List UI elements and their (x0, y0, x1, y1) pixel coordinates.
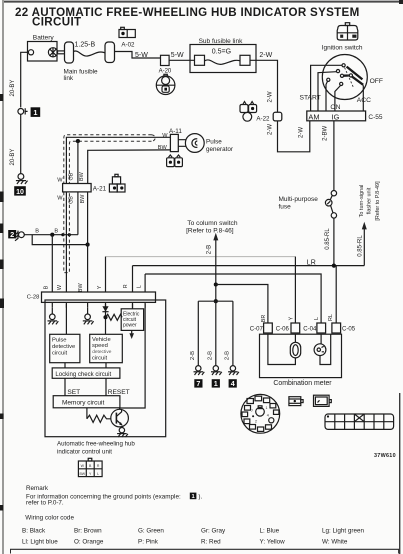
ground 1 drop (208, 301, 222, 388)
wires to locking check circuit (65, 363, 106, 368)
base resistor (87, 415, 111, 422)
ground 4 drop (225, 301, 239, 388)
C-28 pin stubs (52, 302, 145, 307)
svg-text:L: L (97, 472, 99, 476)
internal ground under B pin (48, 308, 59, 325)
svg-text:Gr: Gray: Gr: Gray (201, 527, 226, 534)
page bottom rule (10, 549, 399, 554)
wire BR branch to C-07 (216, 285, 268, 324)
svg-text:5-W: 5-W (135, 52, 148, 59)
ground 10 (16, 174, 28, 184)
junction 2-B / ground bar (214, 299, 218, 303)
svg-text:2: 2 (10, 230, 14, 239)
svg-text:0.85-RL: 0.85-RL (325, 228, 331, 250)
svg-text:G: Green: G: Green (138, 527, 164, 534)
ground bar for grounds 7 1 4 (198, 300, 233, 302)
svg-text:Wiring color code: Wiring color code (25, 515, 74, 522)
wire top contact to AM (311, 65, 343, 111)
wire L pin to transistor collector (120, 304, 146, 410)
power arrow below box (129, 330, 134, 339)
svg-text:BW: BW (78, 283, 84, 293)
connector A-22 pictogram (240, 102, 270, 123)
svg-text:Pulse: Pulse (52, 338, 67, 344)
svg-text:BR: BR (261, 315, 267, 323)
svg-text:flasher unit: flasher unit (367, 187, 373, 214)
svg-text:C-07: C-07 (250, 327, 264, 333)
svg-text:2-W: 2-W (299, 127, 305, 138)
svg-text:C-05: C-05 (342, 327, 356, 333)
svg-text:2-BW: 2-BW (322, 125, 328, 140)
svg-text:B: B (54, 229, 58, 235)
ignition switch connector pictogram (337, 23, 358, 40)
main fusible link (64, 42, 99, 82)
long connector grid (325, 414, 394, 429)
vehicle speed detective circuit (90, 334, 123, 362)
wire IG to fuse, 2-BW (322, 121, 334, 191)
connector icon a (289, 397, 303, 406)
svg-text:SET: SET (67, 389, 80, 396)
svg-text:BW: BW (79, 472, 85, 476)
fusible link holder (105, 42, 115, 63)
svg-text:A-21: A-21 (93, 186, 107, 193)
connector A-21 (57, 171, 106, 204)
svg-text:2-B: 2-B (207, 245, 213, 254)
wire A-20 to sub fusible link, 5-W (169, 52, 194, 60)
wire sub fusible link to ignition AM, 2-W (250, 52, 278, 112)
svg-text:C-06: C-06 (276, 327, 290, 333)
svg-text:indicator control unit: indicator control unit (57, 449, 112, 456)
svg-text:Y: Y (288, 316, 294, 320)
transistor Q1 (111, 409, 129, 427)
svg-text:2-W: 2-W (268, 124, 274, 135)
junction B wire (50, 233, 54, 237)
wire Y C-28 to C-06 (faint) (106, 257, 296, 323)
svg-text:2-W: 2-W (268, 91, 274, 102)
ignition switch rotor bar (344, 76, 363, 85)
ignition switch base C-55 (307, 111, 383, 121)
svg-text:1: 1 (33, 108, 37, 117)
svg-text:0.85-RL: 0.85-RL (358, 235, 364, 257)
junction fuse/LR (332, 264, 336, 268)
svg-text:To column switch: To column switch (187, 220, 238, 227)
svg-text:Pulse: Pulse (206, 138, 222, 145)
svg-text:2-B: 2-B (190, 351, 196, 360)
svg-text:Combination meter: Combination meter (273, 380, 332, 387)
ignition switch (322, 44, 368, 99)
internal ground under BW pin (83, 308, 94, 325)
svg-text:B: Black: B: Black (22, 527, 46, 534)
svg-text:B: B (35, 229, 39, 235)
svg-text:Multi-purpose: Multi-purpose (279, 196, 319, 203)
svg-text:W: W (57, 196, 63, 202)
svg-text:W: W (162, 133, 168, 139)
svg-text:Vehicle: Vehicle (92, 337, 111, 343)
ground 7 drop (190, 301, 204, 388)
svg-text:37W610: 37W610 (374, 453, 396, 459)
wavy wire main fusible link to holder (74, 51, 106, 56)
control unit caption (57, 441, 135, 456)
multi-purpose fuse (279, 191, 337, 219)
wire W pulse generator (66, 137, 170, 183)
svg-text:power: power (123, 322, 137, 328)
svg-text:GB: GB (68, 172, 74, 180)
wire B down to C-28 (51, 235, 53, 292)
ignition switch contacts (327, 64, 353, 86)
wire GB from shield down (77, 141, 79, 183)
svg-text:C-55: C-55 (368, 114, 382, 121)
svg-text:20-BY: 20-BY (9, 80, 16, 97)
svg-text:L: L (314, 317, 320, 320)
connector A-22 on wire (273, 112, 282, 121)
junction 2-B / BR branch (214, 282, 218, 286)
svg-text:W: W (57, 177, 63, 183)
fusible link pictogram (156, 74, 175, 94)
svg-text:1.25-B: 1.25-B (75, 42, 96, 49)
svg-text:2-B: 2-B (225, 351, 231, 360)
svg-text:10: 10 (16, 189, 24, 196)
position labels (300, 78, 383, 111)
junction shield drains (61, 233, 71, 236)
svg-text:Battery: Battery (33, 35, 55, 42)
svg-text:BW: BW (158, 145, 168, 151)
svg-text:CIRCUIT: CIRCUIT (32, 16, 81, 29)
svg-text:A-20: A-20 (159, 69, 172, 75)
resistor to electric circuit power (106, 314, 123, 320)
indicator lamp (290, 334, 300, 358)
svg-text:Br: Brown: Br: Brown (74, 527, 102, 534)
svg-text:circuit: circuit (92, 355, 108, 361)
title (15, 6, 360, 29)
svg-text:7: 7 (251, 409, 253, 413)
page left rule (0, 0, 4, 554)
wire ON contact down (335, 85, 341, 111)
ignition switch OFF pointer (347, 67, 363, 80)
svg-text:C-04: C-04 (303, 327, 317, 333)
wire L line C-28 to C-04 (145, 274, 321, 323)
svg-text:fuse: fuse (279, 204, 292, 211)
svg-text:GB: GB (68, 196, 74, 204)
svg-text:To turn-signal: To turn-signal (359, 185, 365, 218)
svg-text:2-W: 2-W (259, 52, 272, 59)
connector icon b (314, 395, 332, 406)
wire LR line (133, 259, 365, 292)
svg-text:4: 4 (231, 379, 235, 388)
svg-text:link: link (64, 75, 74, 82)
svg-text:7: 7 (196, 379, 200, 388)
connector C-07 (250, 323, 273, 333)
wire ground 2 hook to BW (32, 235, 87, 245)
wire R pin into electric circuit power (132, 304, 134, 309)
wire ACC contact down (362, 85, 364, 111)
connector C-05 (332, 323, 356, 333)
pulse generator (178, 134, 233, 153)
svg-text:1: 1 (266, 406, 268, 410)
shield to GB junction (76, 139, 80, 143)
connector C-06 (276, 323, 300, 333)
svg-text:detective: detective (52, 344, 75, 350)
meter internal right U (320, 334, 331, 364)
svg-text:2: 2 (255, 420, 257, 424)
svg-text:1: 1 (214, 379, 218, 388)
svg-text:BW: BW (79, 171, 85, 181)
ground point 1 marker (31, 107, 41, 117)
svg-text:0.5=G: 0.5=G (212, 48, 231, 55)
svg-text:R: Red: R: Red (201, 538, 221, 545)
connector C-04 (303, 323, 325, 333)
battery fusible-link terminal (48, 48, 57, 57)
svg-text:O: Orange: O: Orange (74, 538, 104, 545)
svg-text:detective: detective (92, 349, 112, 355)
page right rule (399, 393, 401, 554)
svg-text:20-BY: 20-BY (9, 149, 16, 166)
battery (26, 35, 58, 62)
C-28 pinout grid (78, 458, 102, 476)
svg-text:IG: IG (332, 112, 340, 121)
svg-text:Automatic free-wheeling hub: Automatic free-wheeling hub (57, 441, 135, 448)
junction Y / resistor (103, 315, 107, 319)
connector C-28 (27, 283, 156, 303)
svg-text:L: L (136, 285, 142, 288)
svg-text:R: R (123, 284, 129, 288)
page top rule (4, 0, 403, 4)
svg-text:B: B (43, 285, 49, 289)
svg-text:Y: Yellow: Y: Yellow (260, 538, 286, 545)
wire battery to ground 10, 20-BY (9, 52, 25, 107)
meter gauge element (314, 334, 326, 355)
wiring color code (22, 515, 365, 546)
wire W pin to pulse detective circuit (65, 304, 67, 335)
wire GB A-21 to ground 2 line (77, 192, 79, 235)
connector A-20 (159, 55, 172, 74)
wire RL to C-05 (328, 266, 336, 323)
svg-text:P: Pink: P: Pink (138, 538, 159, 545)
wire W A-21 to C-28 (65, 192, 67, 292)
wire battery to main fusible link (double) (58, 51, 65, 54)
connector A-21 pictogram (109, 174, 125, 192)
svg-text:4: 4 (267, 414, 269, 418)
svg-text:L: Blue: L: Blue (260, 527, 280, 534)
wire ground 2 to GB, B (24, 229, 78, 235)
wire memory to resistor (86, 408, 88, 419)
svg-text:Y: Y (97, 285, 103, 289)
wire fuse to LR line, 0.85-RL (325, 218, 334, 266)
svg-text:circuit: circuit (52, 351, 68, 357)
svg-text:generator: generator (206, 146, 233, 153)
wire holder to A-20, 5-W (115, 52, 161, 60)
junction BW ground (86, 243, 90, 247)
svg-text:ON: ON (330, 104, 340, 111)
wire second contact to AM (318, 72, 337, 111)
svg-text:Remark: Remark (26, 485, 49, 492)
svg-text:Ignition switch: Ignition switch (322, 44, 363, 51)
svg-text:[Refer to P.8-46]: [Refer to P.8-46] (186, 228, 234, 235)
wire BW A-21 to C-28 (87, 192, 89, 292)
electric circuit power box (121, 309, 143, 331)
svg-text:W: White: W: White (322, 538, 348, 545)
control unit box (45, 300, 166, 437)
meter internal left U (268, 334, 296, 364)
pulse generator connector pictogram (167, 155, 183, 167)
ignition switch ACC dashed travel (345, 68, 354, 89)
svg-text:refer to P.0-7.: refer to P.0-7. (26, 500, 64, 507)
locking check circuit (52, 368, 120, 378)
ground 2 symbol (15, 231, 24, 241)
svg-text:[Refer to P.8-49]: [Refer to P.8-49] (375, 181, 381, 221)
diode on Y pin (102, 304, 108, 335)
svg-text:C-28: C-28 (27, 295, 40, 301)
svg-text:OFF: OFF (370, 78, 383, 85)
svg-text:Memory circuit: Memory circuit (62, 399, 104, 406)
svg-text:speed: speed (92, 343, 108, 349)
svg-text:BW: BW (80, 194, 86, 204)
svg-text:2-B: 2-B (208, 351, 214, 360)
svg-text:Ll: Light blue: Ll: Light blue (22, 538, 58, 545)
wire to ground 10, 20-BY (9, 114, 21, 173)
inline connector on 20-BY (18, 108, 28, 114)
round connector view (241, 394, 280, 433)
transistor emitter ground (117, 426, 128, 437)
ground point 2 marker (8, 230, 16, 239)
svg-text:ACC: ACC (357, 97, 371, 104)
shield (dashed) around W wire (64, 135, 155, 273)
connector A-02 (119, 27, 135, 48)
remark block (26, 485, 202, 507)
svg-text:).: ). (198, 493, 202, 500)
sub fusible link (190, 38, 256, 72)
svg-text:5-W: 5-W (171, 52, 184, 59)
pulse detective circuit (50, 334, 80, 362)
svg-text:Locking check circuit: Locking check circuit (55, 372, 111, 378)
svg-text:A-22: A-22 (256, 116, 270, 123)
svg-text:RL: RL (328, 314, 334, 321)
svg-text:Lg: Light green: Lg: Light green (322, 527, 365, 534)
ground point 10 marker (14, 186, 26, 196)
svg-text:A-02: A-02 (121, 42, 135, 49)
svg-text:LR: LR (307, 259, 316, 266)
wire to column switch 2-B (186, 220, 238, 301)
wire BW pulse generator (88, 150, 171, 184)
wire A-22 to AM terminal (278, 121, 310, 152)
memory circuit (53, 396, 120, 408)
SET RESET wires (65, 378, 130, 396)
combination meter box (260, 334, 342, 377)
connector A-11 (158, 128, 183, 151)
svg-text:RESET: RESET (108, 389, 130, 396)
branch to turn-signal flasher unit (358, 181, 381, 266)
wire START contact down (326, 81, 328, 111)
svg-text:AM: AM (308, 112, 319, 121)
